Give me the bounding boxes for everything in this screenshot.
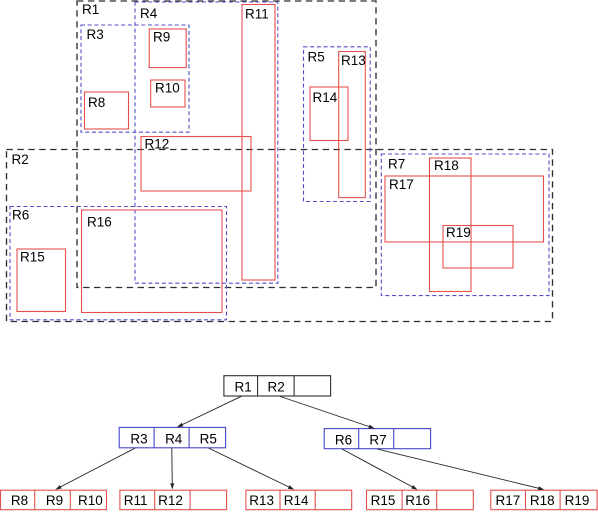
svg-text:R19: R19: [565, 493, 590, 508]
svg-text:R15: R15: [20, 250, 45, 265]
MBR box R10: [151, 80, 185, 107]
label R12: [145, 137, 170, 152]
svg-text:R9: R9: [46, 493, 63, 508]
svg-text:R14: R14: [284, 493, 309, 508]
label R3: [87, 27, 104, 42]
svg-text:R9: R9: [153, 30, 170, 45]
tree node-leaf3: [246, 490, 352, 510]
arrow R4 to leaf R11R12: [170, 448, 174, 489]
label R1: [82, 2, 99, 17]
svg-text:R14: R14: [313, 90, 338, 105]
svg-text:R18: R18: [530, 493, 555, 508]
svg-text:R6: R6: [12, 208, 29, 223]
svg-text:R8: R8: [88, 95, 105, 110]
label R15: [20, 250, 45, 265]
svg-text:R7: R7: [388, 157, 405, 172]
MBR box R3: [81, 25, 189, 132]
svg-text:R6: R6: [335, 433, 352, 448]
svg-text:R1: R1: [82, 2, 99, 17]
label R6: [12, 208, 29, 223]
svg-text:R2: R2: [267, 379, 284, 394]
MBR box R11: [242, 5, 275, 281]
svg-text:R16: R16: [87, 215, 112, 230]
MBR box R9: [149, 29, 186, 68]
svg-text:R19: R19: [446, 225, 471, 240]
MBR box R12: [141, 137, 251, 192]
svg-text:R3: R3: [130, 431, 147, 446]
label R10: [155, 81, 180, 96]
arrow R7 to leaf R17R18R19: [377, 449, 544, 490]
svg-text:R17: R17: [389, 177, 414, 192]
MBR box R14: [310, 87, 348, 141]
MBR box R18: [430, 158, 472, 292]
label R19: [446, 225, 471, 240]
svg-text:R7: R7: [369, 433, 386, 448]
MBR box R15: [17, 249, 66, 312]
label R13: [341, 53, 366, 68]
svg-text:R16: R16: [405, 493, 430, 508]
label R4: [140, 6, 158, 21]
MBR box R6: [10, 207, 227, 320]
MBR box R7: [381, 154, 549, 296]
svg-text:R4: R4: [165, 431, 183, 446]
label R9: [153, 30, 170, 45]
svg-text:R10: R10: [78, 493, 103, 508]
MBR box R5: [304, 47, 371, 202]
MBR box R19: [443, 226, 513, 269]
label R5: [308, 50, 325, 65]
svg-text:R11: R11: [124, 493, 148, 508]
label R11: [245, 7, 269, 22]
arrow R3 to leaf R8R9R10: [55, 448, 135, 490]
tree node-leaf4: [367, 490, 474, 510]
svg-text:R2: R2: [12, 152, 29, 167]
label R18: [434, 158, 459, 173]
arrow root R1 to node R3R4R5: [177, 396, 241, 427]
MBR box R4: [135, 2, 278, 283]
svg-text:R15: R15: [371, 493, 396, 508]
svg-text:R13: R13: [341, 53, 366, 68]
arrow R5 to leaf R13R14: [209, 448, 295, 490]
svg-text:R5: R5: [200, 431, 217, 446]
svg-text:R13: R13: [249, 493, 274, 508]
svg-text:R18: R18: [434, 158, 459, 173]
svg-text:R8: R8: [11, 493, 28, 508]
tree node-leaf5: [491, 490, 597, 510]
MBR box R16: [82, 210, 223, 313]
label R14: [313, 90, 338, 105]
tree node-leaf2: [120, 490, 227, 510]
svg-text:R3: R3: [87, 27, 104, 42]
label R16: [87, 215, 112, 230]
svg-text:R10: R10: [155, 81, 180, 96]
tree node-leaf1: [1, 490, 107, 510]
tree node-mid1: [119, 427, 225, 447]
arrow root R2 to node R6R7: [280, 397, 375, 429]
label R2: [12, 152, 29, 167]
tree node-root: [224, 376, 331, 396]
svg-text:R11: R11: [245, 7, 269, 22]
svg-text:R12: R12: [158, 493, 183, 508]
label R17: [389, 177, 414, 192]
svg-text:R12: R12: [145, 137, 170, 152]
svg-text:R4: R4: [140, 6, 158, 21]
MBR box R17: [385, 176, 544, 242]
tree node-mid2: [324, 429, 430, 449]
label R8: [88, 95, 105, 110]
MBR box R1: [77, 1, 376, 288]
arrow R6 to leaf R15R16: [342, 449, 418, 490]
svg-text:R5: R5: [308, 50, 325, 65]
label R7: [388, 157, 405, 172]
svg-text:R1: R1: [234, 379, 251, 394]
MBR box R13: [339, 52, 366, 198]
MBR box R2: [7, 150, 553, 322]
svg-text:R17: R17: [496, 493, 521, 508]
MBR box R8: [85, 92, 129, 129]
